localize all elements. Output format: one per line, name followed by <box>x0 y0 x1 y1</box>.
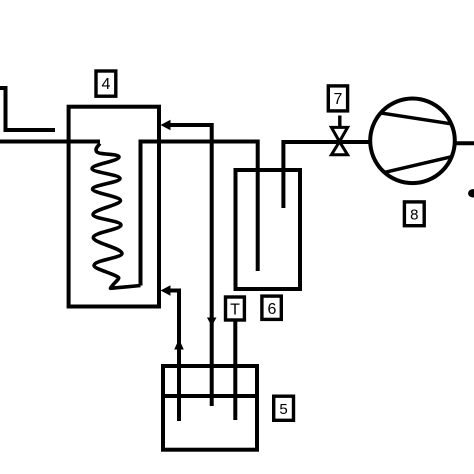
sensor T probe line into tank 5 <box>233 321 237 421</box>
pipe return lower: from tank 5 up into 4 with arrows <box>161 285 184 421</box>
pipe inlet step (top-left, cropped at edge) <box>0 88 55 130</box>
pipe riser from coil up inside 4 <box>141 142 258 286</box>
svg-text:4: 4 <box>101 76 110 93</box>
label box 8 <box>404 202 424 226</box>
blob at right edge (cropped mark) <box>468 189 474 197</box>
svg-text:6: 6 <box>267 301 276 318</box>
pipe outlet tube from vessel 6 to valve 7 <box>283 142 370 208</box>
tank 5 liquid level line <box>161 394 259 398</box>
label box 4 <box>96 71 116 96</box>
label box 6 <box>262 296 281 319</box>
svg-text:5: 5 <box>279 401 287 418</box>
label box 5 <box>274 396 294 420</box>
pipe return upper: from bath down-line into 4 with arrow <box>161 120 217 406</box>
separator vessel 6 <box>236 170 301 289</box>
svg-text:T: T <box>230 302 240 319</box>
label box T (temperature sensor) <box>226 297 245 320</box>
svg-text:8: 8 <box>410 207 418 224</box>
compressor circle 8 <box>370 99 455 184</box>
valve 7 (bowtie) <box>331 127 347 154</box>
svg-text:7: 7 <box>333 91 342 108</box>
pipe main horizontal into heat exchanger 4 <box>0 140 100 144</box>
label box 7 <box>328 86 347 111</box>
heat exchanger shell 4 <box>69 107 159 307</box>
valve 7 stem <box>338 116 341 129</box>
pipe from circle 8 to right edge <box>455 141 474 145</box>
coil inside heat exchanger 4 <box>92 144 141 289</box>
tank 5 (bath) <box>163 366 257 450</box>
compressor chord upper <box>381 113 451 124</box>
compressor chord lower <box>384 157 452 173</box>
